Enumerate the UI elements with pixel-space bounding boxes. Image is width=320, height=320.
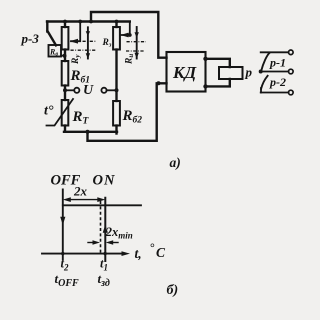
svg-text:tOFF: tOFF (55, 271, 80, 289)
svg-text:а): а) (170, 155, 181, 170)
svg-text:t°: t° (44, 104, 54, 119)
svg-text:Rз: Rз (102, 38, 112, 49)
svg-text:2x: 2x (73, 184, 88, 199)
svg-text:КД: КД (172, 63, 198, 82)
svg-text:p: p (245, 65, 253, 80)
svg-text:Rу: Rу (71, 54, 82, 65)
svg-text:U: U (83, 83, 94, 98)
svg-text:C: C (156, 245, 166, 260)
svg-text:р-2: р-2 (269, 75, 286, 89)
svg-text:RТ: RТ (72, 109, 90, 127)
svg-text:Rв: Rв (49, 48, 58, 58)
svg-text:ON: ON (93, 173, 116, 189)
svg-text:р-1: р-1 (269, 56, 286, 70)
svg-text:t,: t, (135, 246, 142, 261)
svg-text:б): б) (167, 283, 179, 298)
svg-text:tзд: tзд (98, 271, 110, 289)
svg-text:2xmin: 2xmin (105, 225, 133, 240)
svg-text:р-3: р-3 (21, 31, 40, 46)
svg-text:Rб2: Rб2 (122, 108, 143, 126)
svg-text:t1: t1 (100, 257, 108, 273)
svg-text:°: ° (150, 241, 155, 255)
svg-text:t2: t2 (61, 257, 69, 273)
svg-text:Rи: Rи (125, 54, 136, 65)
